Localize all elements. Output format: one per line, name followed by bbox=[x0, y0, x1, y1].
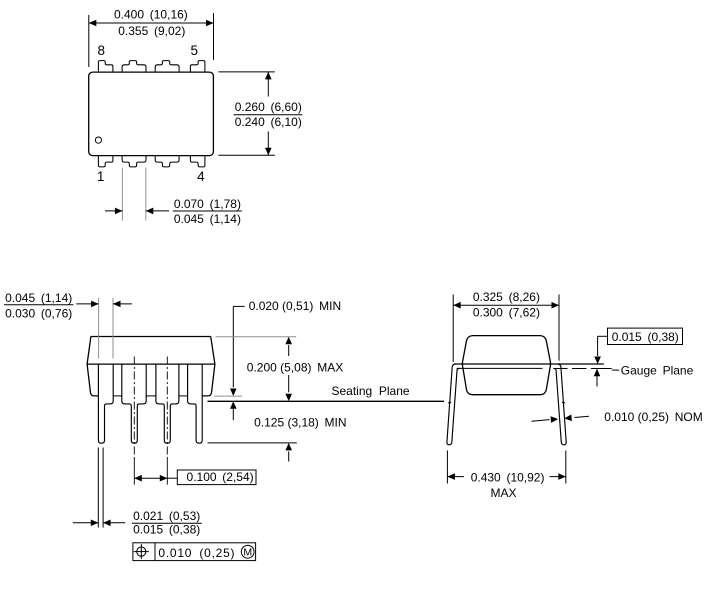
svg-text:0.015 (0,38): 0.015 (0,38) bbox=[133, 523, 200, 537]
svg-text:0.430 (10,92): 0.430 (10,92) bbox=[471, 470, 545, 484]
svg-text:0.260 (6,60): 0.260 (6,60) bbox=[235, 100, 302, 114]
svg-text:0.325 (8,26): 0.325 (8,26) bbox=[473, 290, 540, 304]
svg-text:0.021 (0,53): 0.021 (0,53) bbox=[133, 509, 200, 523]
svg-text:0.045 (1,14): 0.045 (1,14) bbox=[174, 212, 241, 226]
svg-text:0.010 (0,25) NOM: 0.010 (0,25) NOM bbox=[604, 410, 702, 424]
svg-text:0.200 (5,08) MAX: 0.200 (5,08) MAX bbox=[247, 360, 343, 374]
svg-text:Gauge Plane: Gauge Plane bbox=[621, 364, 694, 378]
svg-text:M: M bbox=[243, 547, 252, 559]
svg-text:0.125 (3,18) MIN: 0.125 (3,18) MIN bbox=[254, 415, 346, 429]
svg-text:Seating Plane: Seating Plane bbox=[332, 384, 410, 398]
svg-text:0.400 (10,16): 0.400 (10,16) bbox=[114, 8, 188, 22]
svg-text:0.070 (1,78): 0.070 (1,78) bbox=[174, 197, 241, 211]
svg-text:0.300 (7,62): 0.300 (7,62) bbox=[473, 306, 540, 320]
svg-text:0.240 (6,10): 0.240 (6,10) bbox=[235, 115, 302, 129]
svg-text:0.015 (0,38): 0.015 (0,38) bbox=[612, 330, 679, 344]
svg-text:0.100 (2,54): 0.100 (2,54) bbox=[187, 470, 254, 484]
svg-text:0.020 (0,51) MIN: 0.020 (0,51) MIN bbox=[249, 299, 341, 313]
svg-text:5: 5 bbox=[191, 43, 199, 58]
svg-text:0.010 (0,25): 0.010 (0,25) bbox=[158, 546, 235, 560]
svg-text:1: 1 bbox=[97, 169, 105, 184]
svg-text:8: 8 bbox=[98, 43, 106, 58]
svg-text:MAX: MAX bbox=[490, 486, 516, 500]
svg-text:0.030 (0,76): 0.030 (0,76) bbox=[5, 307, 72, 321]
svg-text:0.355 (9,02): 0.355 (9,02) bbox=[118, 24, 185, 38]
svg-text:4: 4 bbox=[197, 169, 205, 184]
svg-text:0.045 (1,14): 0.045 (1,14) bbox=[5, 291, 72, 305]
